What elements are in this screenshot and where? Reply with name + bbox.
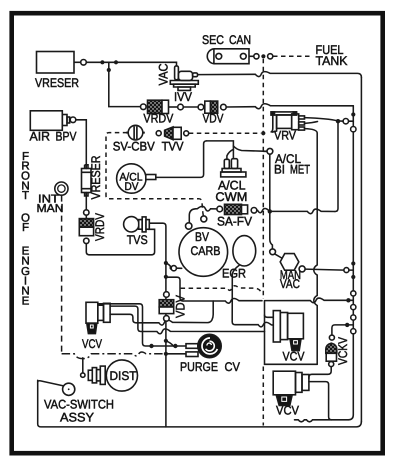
svg-text:CAN: CAN [229,33,251,47]
connector circle VRDV right [178,104,184,110]
svg-text:VAC: VAC [157,64,171,86]
component VAC-SWITCH circle [63,383,75,395]
svg-text:BPV: BPV [56,130,78,144]
svg-text:BV: BV [195,230,210,244]
wire x338 down to SA-FV line end [335,121,338,211]
svg-text:VAC-SWITCH: VAC-SWITCH [44,398,114,412]
wire V1 lower half down to bottom bus [165,321,167,427]
wire dashed main vertical x263.3 upper [262,59,264,299]
node dot VRV line x338 [336,119,340,123]
svg-text:MAN: MAN [37,203,64,215]
wire dashed TVV line to main vertical [189,132,261,134]
connector circle rail1 inline y307.1 [351,305,356,310]
wire left VCV canister-top to purge canister [98,304,186,346]
connector circle MAN VAC right [299,266,305,272]
wire MAN VAC circle to hexagon [275,254,282,258]
svg-text:DIST: DIST [110,369,137,383]
svg-text:F: F [22,222,29,234]
wire VRV lower nipple down (x317) [305,129,318,365]
component VRESER box [37,52,75,74]
svg-text:VAC: VAC [280,277,300,291]
wire VRV middle nipple merging [305,122,318,124]
svg-text:TVV: TVV [162,140,185,154]
connector circle VRESER output [81,60,87,66]
component IVV valve body [170,66,198,91]
component A/CL DV circle [117,164,156,193]
wire into VRDV vertical [85,215,87,218]
component INT MAN port (double circle) [55,182,68,195]
wire bottom bus B1 [295,420,349,422]
connector circle above lower VDV [164,292,170,298]
wire VAC-SWITCH circle link [38,381,64,386]
component SV-CBV solenoid [126,125,145,140]
component TVS sensor [124,217,150,232]
connector circle VRDV left [141,104,147,110]
svg-text:TVS: TVS [127,233,148,247]
connector circle carb lower-left port [171,266,176,271]
wire VRESER vertical to circle [85,193,87,210]
component upper-right VCV [273,311,303,351]
connector circle MAN VAC line at rail [344,268,349,273]
wire Y300 main line [183,299,262,304]
node dot V1 y353.8 [164,352,168,356]
wire SA-FV output line [257,208,335,213]
wire CWM branch to BI MET circle [233,146,267,151]
connector circle rail1 inline y317.5 [351,315,356,320]
svg-text:TANK: TANK [316,54,349,68]
component PURGE CV canister [198,334,221,357]
component VRV valve [271,112,305,132]
connector circle below VRDV vertical [84,238,89,243]
label FRONT OF ENGINE vertical [21,151,30,308]
connector circle SA-FV left [217,206,223,212]
wire upper-right VCV fitting line to B1 [309,382,332,420]
component SA-FV valve [225,204,248,214]
wire AIR BPV down-line [76,120,87,169]
connector circle MAN VAC top [270,249,276,255]
connector circle A/CL BI MET [267,148,273,154]
svg-text:VDV: VDV [174,294,188,318]
svg-text:SEC: SEC [202,33,224,47]
wire DIST branch from dash-dot [82,358,84,373]
component AIR BPV box [30,111,69,131]
wire dashed from SEC CAN to FUEL TANK [273,55,311,57]
wire EGR down and to lower-right VCV [232,265,273,327]
node dot before carb port circle [170,266,174,270]
node dot rail1 y263.5 [351,261,355,265]
connector circle right of SEC CAN [254,54,259,59]
node dot SA-FV line at BI MET junction [268,209,272,213]
wire rail1 main [352,106,354,415]
wire Ha from left VCV upper nipple [110,306,264,334]
wire branch to VRDV [109,62,141,106]
svg-text:DV: DV [125,181,140,193]
wire VRDV to VDV [183,106,198,108]
component A/CL CWM [221,159,246,177]
node dot on VRDV branch [107,68,111,72]
svg-text:VRESER: VRESER [35,76,79,90]
node dot dashed junction y133 [261,131,265,135]
svg-text:CARB: CARB [191,244,221,258]
connector circle AIR BPV output [70,117,76,123]
node dot rail1 y277 [351,275,355,279]
wire V1 to Y300 line [166,277,183,301]
component TVV valve [165,127,182,140]
wire V1 diagonal into purge feed line [166,341,176,346]
component VRDV vertical valve [79,219,93,236]
component left VCV [86,302,110,333]
component SEC CAN canister [207,49,249,64]
connector circle below lower VDV [164,316,170,322]
wire solid vertical x264.5 (branch) [265,301,318,364]
wire VCKV top to rail [332,325,353,335]
svg-text:CWM: CWM [215,190,247,204]
svg-text:BI: BI [274,162,285,176]
wire dashed INT MAN vertical [61,196,63,353]
connector circle right of SV-CBV [156,131,161,136]
connector circle VDV left [198,104,204,110]
connector circle SA-FV right [251,208,257,214]
component PURGE CV nipple 2 [186,352,198,357]
wire bottom bus B2 VAC-SWITCH to rail2 [38,380,362,427]
svg-text:PURGE: PURGE [180,360,218,374]
connector circle VCKV top [329,335,334,340]
component MAN VAC hexagon [280,254,299,271]
component BV CARB circle [179,228,228,277]
wire rail1 bottom curve into B1 [348,415,353,420]
node dot VCKV line at rail [345,323,349,327]
component lower-right VCV [273,371,309,405]
component VRESER vertical canister [82,165,92,196]
svg-text:VCV: VCV [283,349,306,363]
wire SA-FV left to carb BV port [189,206,217,222]
wire CWM left prong arc [227,149,234,159]
svg-text:IVV: IVV [174,90,193,104]
node dot on purge feed line x151.5 [149,344,153,348]
wire VCKV bottom to lower VCV fitting [309,367,331,379]
wire V1 through lower VDV [165,297,167,315]
node dot rail1 y114.5 [351,112,355,116]
wire VRDV vertical output to TVS area [86,229,154,255]
svg-text:VCV: VCV [276,404,300,418]
connector circle rail1 inline y293.4 [351,291,356,296]
connector circle SEC CAN right port [240,53,246,59]
connector circle SEC CAN left port [216,53,222,59]
wire Y300 right part [265,298,354,303]
svg-text:ASSY: ASSY [60,411,95,425]
node dot V1 y277 [164,275,168,279]
wire A/CL DV output [156,141,207,178]
component EGR valve ellipse [233,236,256,266]
connector circle rail1 inline y331.2 [351,329,356,334]
wire purge bottom feed from V1 [166,353,186,355]
wire dash-dot to distributor and purge [62,352,166,359]
node dot V1 y263 [164,261,168,265]
wire dashed EGR bypass D3 [181,286,262,293]
component PURGE CV nipple 1 [186,344,198,349]
connector circle carb top port (dashed feed) [201,216,207,222]
wire dashed main vertical x263.3 lower [262,367,264,426]
wire VRV upper nipple to rail [305,118,344,122]
wire dashed SV-CBV box left/bottom [106,133,204,216]
connector circle DIST input [81,373,85,377]
wire SEC CAN right stub [249,55,254,57]
node dot purge top line [173,344,177,348]
component lower VDV valve [159,300,174,314]
connector circle right of TVV [184,131,189,136]
svg-text:E: E [22,296,30,308]
wire right rail 2 (IVV line down right side) [360,77,362,421]
wire BI MET stub from dashed line [263,150,267,152]
svg-text:AIR: AIR [30,130,51,144]
wire IVV output to right rail [198,72,362,78]
node junction dot 2 on VRESER wire [114,60,118,64]
connector circle below VRESER vertical [84,210,89,215]
svg-text:SA-FV: SA-FV [217,215,253,229]
node dot Y300 at rail [346,298,350,302]
wire VRESER stub [74,61,81,63]
svg-text:T: T [22,190,29,202]
svg-text:VCKV: VCKV [336,336,350,365]
svg-text:VRV: VRV [274,129,297,143]
wire MAN VAC output to rail [305,269,353,270]
component DIST circle [106,360,137,391]
svg-text:CV: CV [225,360,241,374]
svg-text:EGR: EGR [222,267,246,281]
component VRDV valve (top) [148,100,178,113]
wire L1 from left VCV lower nipple [110,301,213,325]
wire branch to upper-right VCV top fitting [265,315,274,317]
wire VRESER output [86,62,176,66]
svg-text:VRDV: VRDV [93,212,107,241]
connector circle rail1 inline y129.2 [351,127,356,132]
svg-text:VRDV: VRDV [143,112,174,126]
connector circle before fuel tank dashes [268,54,273,59]
svg-text:SV-CBV: SV-CBV [113,140,156,154]
connector circle VRV output to rail [343,119,348,124]
component VCKV check valve [326,343,337,361]
wire VDV to right rail [226,104,353,109]
component VDV valve (top) [205,101,218,113]
wire stub circle to rail1 at y121 [348,120,353,122]
wire TVS output down (V1) [149,223,166,291]
svg-text:VDV: VDV [203,112,225,126]
wire carb lower-left port [166,263,182,268]
wire A/CL CWM bus [207,141,234,159]
connector circle VCKV bottom [329,362,334,367]
connector circle carb BV port [186,223,192,229]
component DIST plug [88,366,105,384]
node dot fuel tank tee [261,54,265,58]
svg-text:MET: MET [290,162,310,176]
wire A/CL BI MET vertical [270,154,273,249]
node dot V1 y340.8 [164,339,168,343]
svg-text:VRESER: VRESER [89,156,103,200]
svg-text:VCV: VCV [82,337,103,351]
node junction dot on VRESER wire [100,60,104,64]
connector circle VDV right [221,104,227,110]
